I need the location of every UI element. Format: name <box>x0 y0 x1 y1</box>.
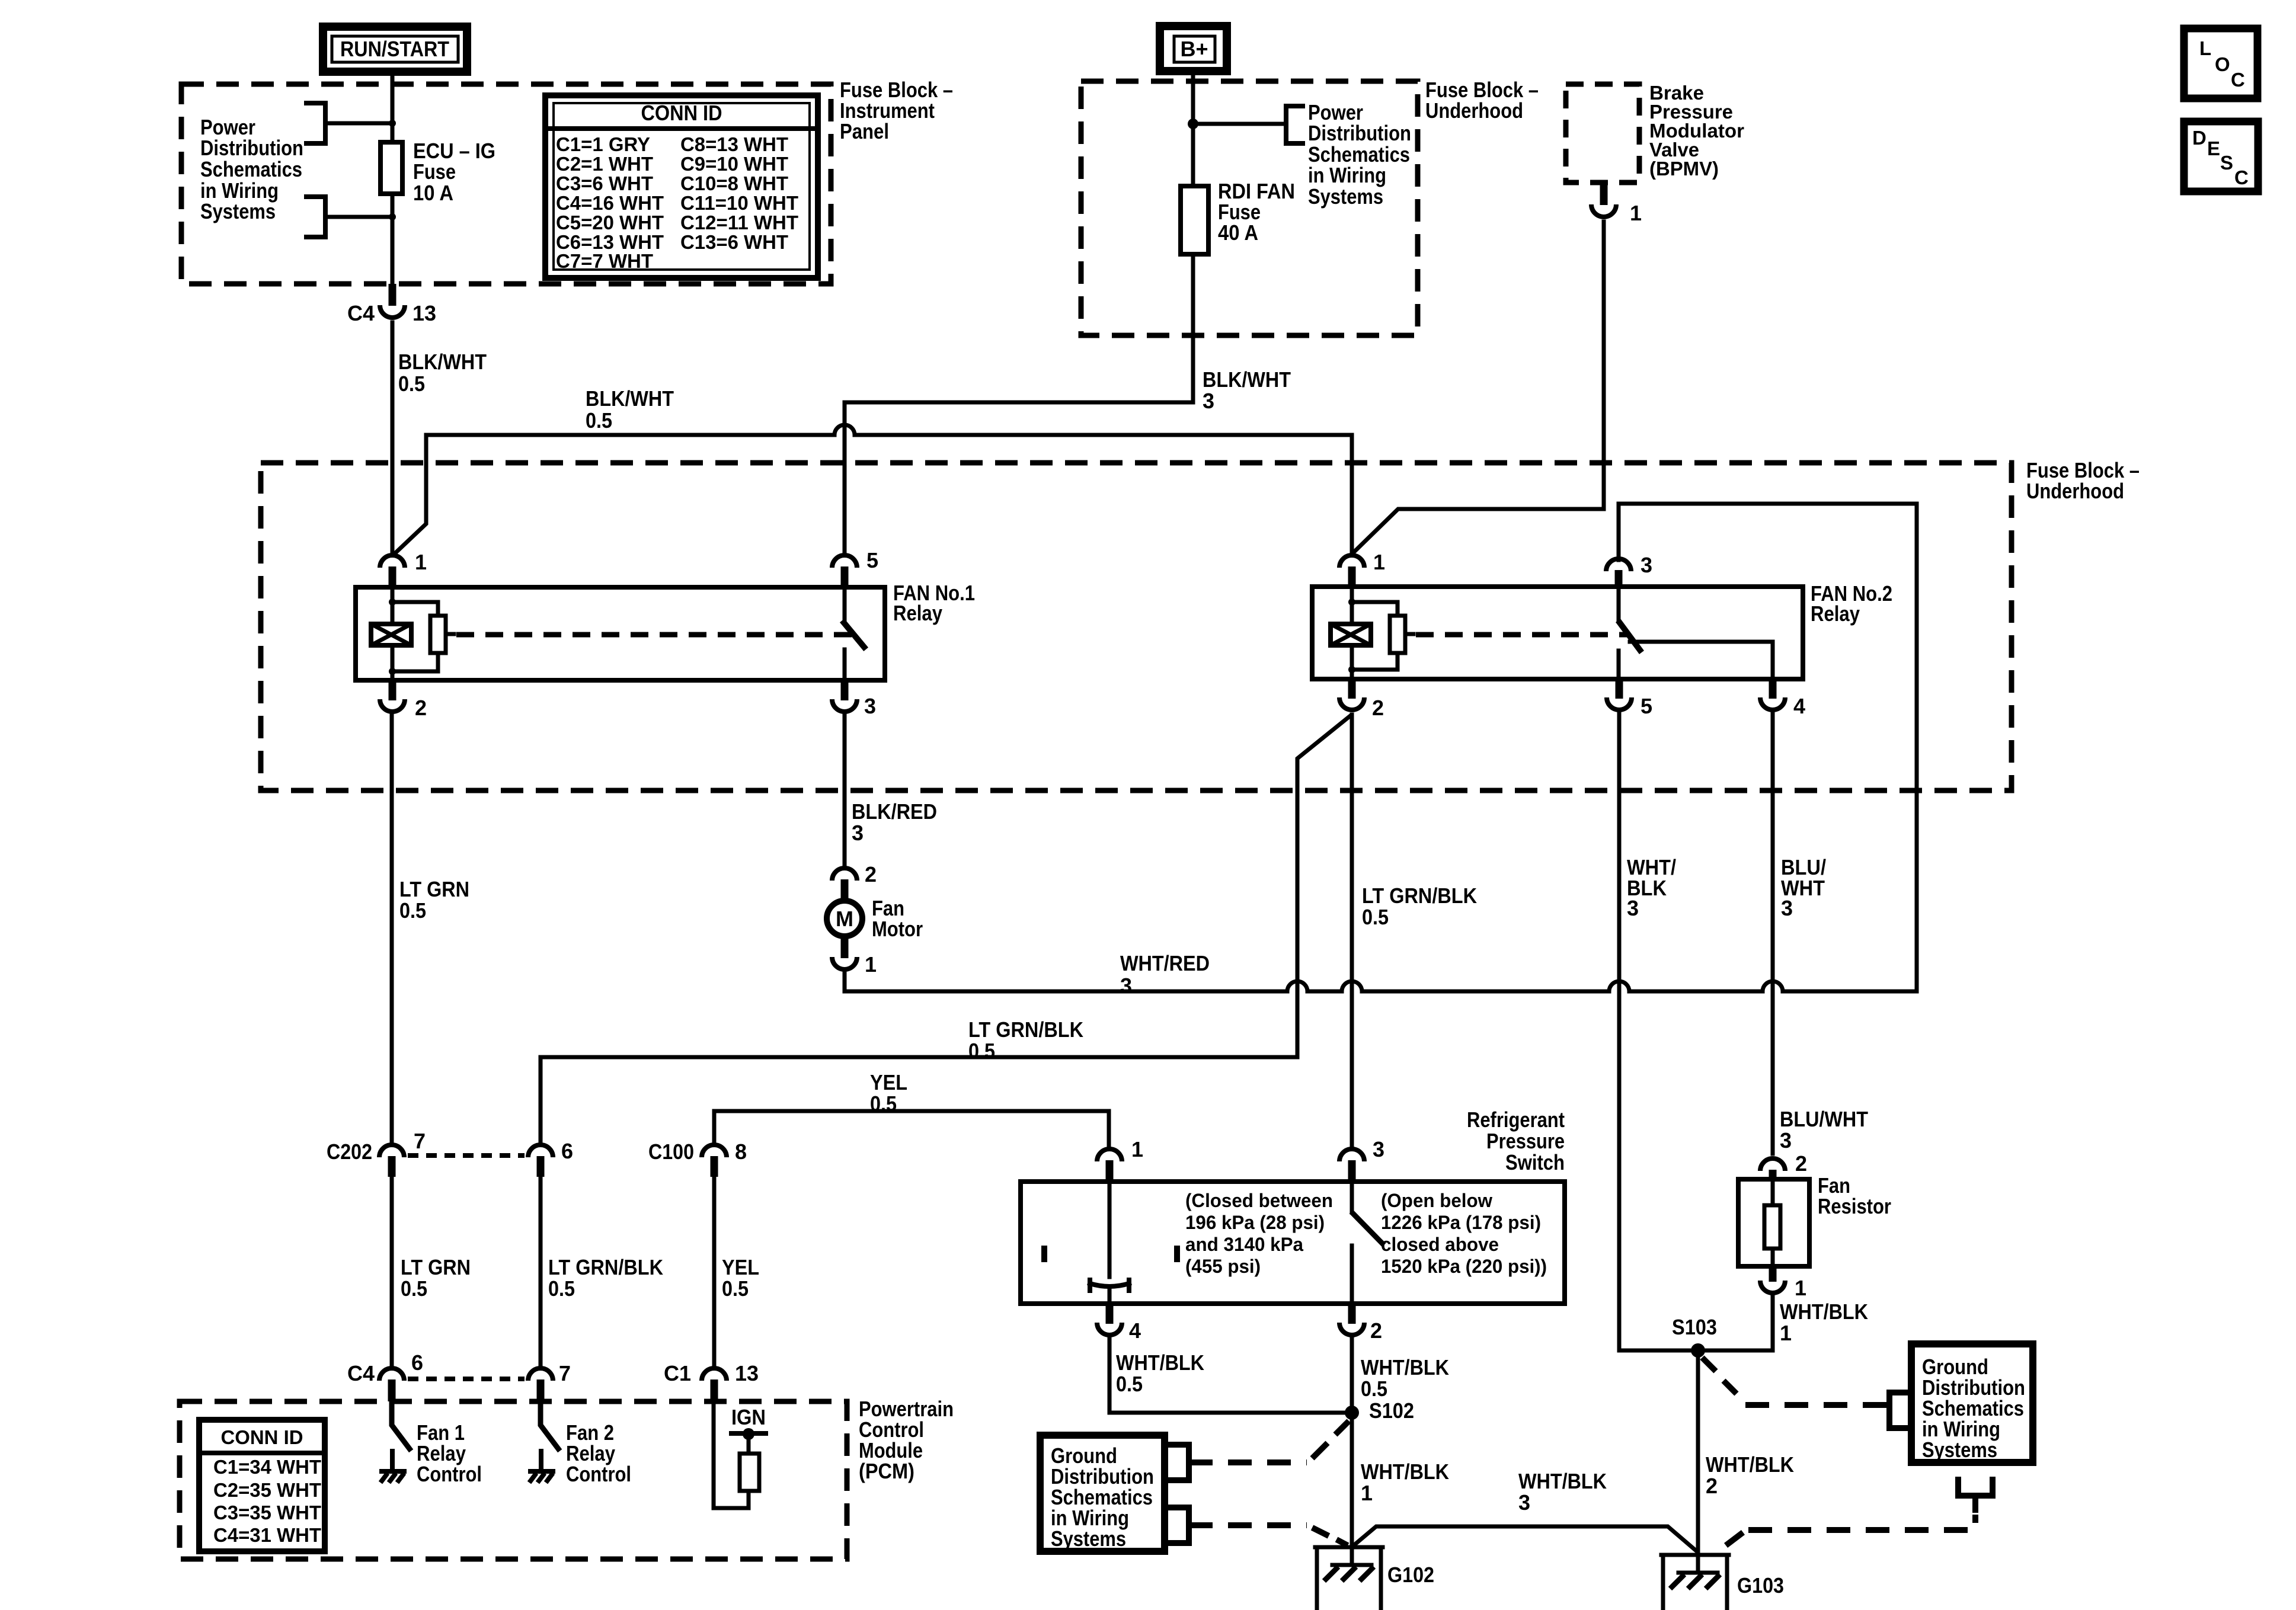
svg-text:13: 13 <box>735 1361 759 1385</box>
label (Closed between 196 kPa ...) <box>1185 1190 1333 1277</box>
svg-text:C5=20 WHT: C5=20 WHT <box>556 212 664 233</box>
svg-text:0.5: 0.5 <box>968 1039 995 1063</box>
svg-text:(Open below: (Open below <box>1381 1190 1492 1211</box>
label Fuse Block - Underhood (top) <box>1425 78 1539 123</box>
wire LT GRN/BLK 0.5 FAN2 pin2 to pressure switch pin 3 <box>1350 715 1354 1145</box>
label LT GRN 0.5 <box>399 877 469 923</box>
svg-text:Schematics: Schematics <box>200 157 302 181</box>
CONN ID table (PCM) <box>199 1420 325 1551</box>
svg-text:3: 3 <box>1641 553 1652 577</box>
svg-text:G103: G103 <box>1737 1573 1784 1598</box>
connector C1 pin 13 <box>664 1361 759 1401</box>
wire WHT/BLK 1 S102 to G102 <box>1350 1413 1354 1547</box>
svg-text:1: 1 <box>1131 1137 1143 1161</box>
ground G102 <box>1315 1547 1434 1609</box>
label Fan Resistor <box>1818 1173 1891 1218</box>
svg-text:LT GRN/BLK: LT GRN/BLK <box>548 1255 663 1279</box>
label WHT/BLK 1 (resistor) <box>1780 1299 1868 1345</box>
svg-text:WHT/RED: WHT/RED <box>1120 951 1210 975</box>
svg-text:BLU/WHT: BLU/WHT <box>1780 1107 1868 1131</box>
svg-text:7: 7 <box>414 1129 426 1153</box>
svg-text:2: 2 <box>865 862 877 886</box>
svg-text:3: 3 <box>1780 1128 1792 1153</box>
terminal RUN/START <box>323 27 467 72</box>
svg-text:in Wiring: in Wiring <box>1308 163 1386 187</box>
svg-text:LT GRN: LT GRN <box>401 1255 471 1279</box>
wire BLU/WHT 3 FAN2 pin4 to fan resistor pin 2 <box>1771 714 1775 1154</box>
svg-text:D: D <box>2192 127 2207 149</box>
svg-text:C4=16 WHT: C4=16 WHT <box>556 192 664 214</box>
svg-text:M: M <box>836 907 853 931</box>
dashed link bracket to S102 <box>1189 1421 1349 1462</box>
wire BLK/RED 3 FAN1 pin3 to fan motor pin 2 <box>843 715 847 866</box>
label FAN No.2 Relay <box>1811 581 1892 626</box>
svg-text:Control: Control <box>417 1462 482 1486</box>
bracket upper power distribution <box>306 103 325 143</box>
label (Open below 1226 kPa ...) <box>1381 1190 1547 1277</box>
label Fan 1 Relay Control <box>417 1420 482 1486</box>
svg-text:Pressure: Pressure <box>1486 1129 1565 1153</box>
label BLU/WHT 3 (lower) <box>1780 1107 1868 1153</box>
svg-text:RUN/START: RUN/START <box>340 37 449 61</box>
svg-text:G102: G102 <box>1387 1563 1434 1587</box>
LOC box <box>2184 28 2257 98</box>
svg-text:3: 3 <box>864 694 876 718</box>
svg-text:C8=13 WHT: C8=13 WHT <box>680 133 788 155</box>
label ECU - IG Fuse 10 A <box>413 139 495 205</box>
DESC box <box>2184 121 2258 191</box>
connector fan motor pin 2 <box>832 862 877 899</box>
svg-text:WHT/BLK: WHT/BLK <box>1116 1350 1204 1375</box>
fan resistor connector pin 2 <box>1760 1151 1807 1179</box>
connector C100 pin 8 <box>648 1140 747 1177</box>
ground Fan 2 relay control <box>529 1451 553 1483</box>
svg-text:C1: C1 <box>664 1361 691 1385</box>
label BLK/WHT 0.5 (left vertical) <box>398 350 487 396</box>
svg-text:BLK/WHT: BLK/WHT <box>586 386 674 411</box>
wire BPMV to FAN2 relay pin 1 <box>1353 222 1604 553</box>
connector fan motor pin 1 <box>832 939 877 977</box>
relay FAN1 coil circuit <box>389 587 438 681</box>
wire fuse to connector C4-13 <box>391 194 395 284</box>
svg-text:C: C <box>2234 167 2249 188</box>
label FAN No.1 Relay <box>893 581 975 625</box>
svg-text:YEL: YEL <box>722 1255 759 1279</box>
splice S102 <box>1345 1398 1414 1423</box>
label Fuse Block - Instrument Panel <box>840 78 953 143</box>
svg-text:0.5: 0.5 <box>401 1276 427 1301</box>
label Refrigerant Pressure Switch <box>1467 1108 1565 1174</box>
svg-text:5: 5 <box>1641 694 1652 718</box>
svg-text:C2=1 WHT: C2=1 WHT <box>556 153 653 175</box>
svg-text:WHT/BLK: WHT/BLK <box>1518 1469 1607 1493</box>
svg-text:6: 6 <box>411 1350 423 1375</box>
svg-text:C13=6 WHT: C13=6 WHT <box>680 231 788 253</box>
svg-text:C202: C202 <box>327 1140 372 1164</box>
svg-text:3: 3 <box>1781 896 1793 920</box>
svg-text:C4: C4 <box>347 301 375 325</box>
svg-text:C1=1 GRY: C1=1 GRY <box>556 133 650 155</box>
svg-text:Systems: Systems <box>1308 184 1383 209</box>
svg-text:2: 2 <box>1370 1318 1382 1343</box>
svg-text:C: C <box>2231 69 2245 91</box>
svg-text:4: 4 <box>1129 1318 1141 1343</box>
wire C1-13 to IGN pullup <box>714 1401 749 1508</box>
svg-text:LT GRN: LT GRN <box>399 877 469 901</box>
svg-text:1520 kPa (220 psi)): 1520 kPa (220 psi)) <box>1381 1256 1547 1277</box>
label BLK/WHT 3 <box>1203 367 1291 413</box>
wire WHT/BLK 0.5 pin 2 to S102 <box>1350 1339 1354 1413</box>
label WHT/RED 3 <box>1120 951 1210 998</box>
svg-text:10 A: 10 A <box>413 181 453 205</box>
wire junction to bracket (underhood) <box>1193 122 1286 126</box>
wire BLK/WHT 3 from RDI fuse to FAN1 relay pin 5 <box>845 254 1193 552</box>
connector pressure switch pin 1 <box>1097 1137 1143 1182</box>
connector pressure switch pin 3 <box>1339 1137 1384 1182</box>
fuse RDI FAN 40A <box>1181 186 1208 254</box>
svg-text:Switch: Switch <box>1505 1150 1565 1174</box>
dashed link S103 to bracket <box>1702 1358 1889 1405</box>
fan resistor box <box>1738 1179 1809 1266</box>
label WHT/BLK 0.5 (pin 4) <box>1116 1350 1204 1396</box>
refrigerant pressure switch box <box>1021 1182 1565 1304</box>
svg-text:S103: S103 <box>1672 1315 1717 1339</box>
harness dashes C4-6 to 7 <box>408 1377 525 1381</box>
connector BPMV pin 1 <box>1591 183 1642 225</box>
PCM dashed box <box>180 1401 847 1559</box>
svg-text:Underhood: Underhood <box>1425 98 1523 123</box>
svg-text:6: 6 <box>561 1139 573 1163</box>
svg-text:C11=10 WHT: C11=10 WHT <box>680 192 798 214</box>
connector C4 pin 6 (row 2) <box>347 1350 423 1401</box>
relay FAN2 internal dashed link <box>1405 632 1414 636</box>
label Power Distribution Schematics in Wiring Systems (left) <box>200 115 303 223</box>
svg-text:closed above: closed above <box>1381 1234 1499 1255</box>
svg-text:2: 2 <box>415 696 427 720</box>
svg-text:0.5: 0.5 <box>548 1276 575 1301</box>
connector pressure switch pin 2 <box>1339 1304 1382 1343</box>
label YEL 0.5 (lower) <box>722 1255 759 1301</box>
svg-text:Resistor: Resistor <box>1818 1194 1891 1218</box>
label Powertrain Control Module (PCM) <box>859 1397 954 1483</box>
relay FAN2 switch <box>1619 587 1773 679</box>
svg-text:LT GRN/BLK: LT GRN/BLK <box>968 1017 1083 1042</box>
svg-text:C9=10 WHT: C9=10 WHT <box>680 153 788 175</box>
svg-text:Refrigerant: Refrigerant <box>1467 1108 1565 1132</box>
relay FAN2 coil resistor <box>1390 616 1405 653</box>
pressure switch left contact (closed) <box>1090 1182 1129 1304</box>
svg-text:3: 3 <box>1203 389 1214 413</box>
switch Fan 1 relay control blade <box>392 1401 410 1449</box>
svg-text:WHT/BLK: WHT/BLK <box>1780 1299 1868 1324</box>
bracket upper (to S102) <box>1170 1445 1189 1480</box>
svg-text:CONN ID: CONN ID <box>641 101 722 125</box>
CONN ID table (instrument panel) <box>545 95 818 278</box>
relay FAN No.2 box <box>1312 587 1803 679</box>
svg-text:8: 8 <box>735 1140 747 1164</box>
svg-text:1226 kPa (178 psi): 1226 kPa (178 psi) <box>1381 1212 1541 1233</box>
svg-text:Fuse: Fuse <box>413 159 456 184</box>
svg-text:WHT/BLK: WHT/BLK <box>1706 1452 1794 1477</box>
wire WHT/RED 3 fan motor to FAN2 pin 3 terminal (hops at 2189,2281,2732,2991) <box>845 504 1917 991</box>
svg-text:4: 4 <box>1793 694 1805 718</box>
label BLU/WHT 3 (pin 4 wire) <box>1781 855 1826 920</box>
svg-text:1: 1 <box>1780 1321 1792 1345</box>
wire YEL 0.5 C100-8 to pressure switch pin 1 <box>714 1111 1109 1145</box>
svg-text:CONN ID: CONN ID <box>221 1426 303 1448</box>
svg-text:1: 1 <box>1361 1481 1373 1505</box>
svg-text:Relay: Relay <box>1811 601 1860 626</box>
connector pressure switch pin 4 <box>1097 1304 1141 1343</box>
splice S103 <box>1672 1315 1717 1358</box>
svg-text:C100: C100 <box>648 1140 694 1164</box>
bracket bottom (to G103) <box>1958 1480 1993 1496</box>
svg-text:3: 3 <box>1627 896 1639 920</box>
wire BLK/WHT 0.5 branch FAN1 pin1 to FAN2 pin1 (hop at x=1425) <box>394 425 1352 555</box>
label WHT/BLK 1 <box>1361 1459 1449 1505</box>
svg-text:1: 1 <box>865 952 877 977</box>
svg-text:LT GRN/BLK: LT GRN/BLK <box>1362 884 1477 908</box>
pressure switch tick mark middle <box>1174 1246 1180 1262</box>
relay FAN2 coil symbol <box>1331 624 1371 645</box>
svg-text:Systems: Systems <box>1922 1438 1997 1462</box>
fan motor M <box>827 901 862 936</box>
label RDI FAN Fuse 40 A <box>1218 179 1295 245</box>
svg-text:(BPMV): (BPMV) <box>1649 158 1719 180</box>
svg-text:1: 1 <box>1373 550 1385 574</box>
wire LT GRN/BLK 0.5 conn6 to pin 7 row2 <box>539 1177 543 1366</box>
svg-text:S: S <box>2220 152 2233 174</box>
svg-text:(455 psi): (455 psi) <box>1185 1256 1261 1277</box>
connector FAN2 pin 2 <box>1339 679 1384 720</box>
svg-text:BLK/WHT: BLK/WHT <box>398 350 487 374</box>
wire RUN/START to fuse ECU-IG <box>391 72 395 142</box>
svg-text:Distribution: Distribution <box>1308 121 1411 145</box>
svg-text:C12=11 WHT: C12=11 WHT <box>680 212 798 233</box>
label Fan 2 Relay Control <box>566 1420 631 1486</box>
junction lower on ECU-IG wire <box>389 213 396 220</box>
bracket left (to S103) <box>1889 1393 1907 1428</box>
svg-text:0.5: 0.5 <box>586 408 612 433</box>
wire WHT/BLK 1 fan resistor to S103 <box>1698 1297 1773 1350</box>
fan resistor element <box>1764 1179 1780 1266</box>
svg-text:E: E <box>2207 137 2220 159</box>
brake pressure modulator valve dashed box <box>1566 84 1639 183</box>
label LT GRN/BLK 0.5 (branch) <box>968 1017 1083 1063</box>
svg-text:C3=6 WHT: C3=6 WHT <box>556 172 653 194</box>
wire WHT/BLK 3 FAN2 pin5 to S103 <box>1619 714 1698 1350</box>
switch Fan 2 relay control blade <box>541 1401 558 1449</box>
dashed link bracket to G102 <box>1189 1525 1348 1545</box>
label Power Distribution Schematics in Wiring Systems (underhood) <box>1308 100 1411 209</box>
svg-text:196 kPa (28 psi): 196 kPa (28 psi) <box>1185 1212 1325 1233</box>
svg-text:BLK/RED: BLK/RED <box>852 799 937 824</box>
harness dashes C202-7 to 6 <box>408 1153 525 1158</box>
connector FAN1 pin 5 <box>832 548 878 587</box>
svg-text:C3=35 WHT: C3=35 WHT <box>213 1502 321 1523</box>
wire BLK/WHT 0.5 from C4-13 down to FAN1 relay pin 1 <box>391 322 395 552</box>
label WHT/BLK 3 (ground link) <box>1518 1469 1607 1515</box>
svg-text:0.5: 0.5 <box>1361 1377 1387 1401</box>
svg-text:7: 7 <box>559 1361 571 1385</box>
svg-text:0.5: 0.5 <box>399 898 426 923</box>
svg-text:Motor: Motor <box>872 917 923 941</box>
svg-text:BLK/WHT: BLK/WHT <box>1203 367 1291 392</box>
fuse block underhood dashed box (top) <box>1081 81 1418 335</box>
svg-text:L: L <box>2199 37 2211 59</box>
svg-text:Distribution: Distribution <box>200 136 303 160</box>
svg-text:C1=34 WHT: C1=34 WHT <box>213 1456 321 1478</box>
label WHT/BLK 3 (pin 5 wire) <box>1627 855 1676 920</box>
label YEL 0.5 <box>870 1070 907 1116</box>
svg-text:Systems: Systems <box>1051 1526 1126 1551</box>
relay FAN No.1 box <box>356 587 885 680</box>
wire WHT/BLK 3 G102 to G103 <box>1354 1526 1697 1551</box>
svg-text:Control: Control <box>566 1462 631 1486</box>
ground Fan 1 relay control <box>380 1451 404 1483</box>
wire B+ to RDI FAN fuse <box>1191 71 1195 186</box>
connector FAN2 pin 3 <box>1606 553 1652 587</box>
svg-text:Relay: Relay <box>893 601 942 625</box>
label Fuse Block - Underhood (big box) <box>2026 458 2140 503</box>
junction upper on ECU-IG wire <box>389 120 396 127</box>
wire WHT/BLK 2 S103 to G103 <box>1696 1350 1700 1555</box>
svg-text:0.5: 0.5 <box>722 1276 749 1301</box>
svg-text:and 3140 kPa: and 3140 kPa <box>1185 1234 1303 1255</box>
fuse block instrument panel dashed box <box>181 84 831 284</box>
relay FAN1 coil resistor <box>430 616 446 653</box>
dashed link bracket to G103 <box>1726 1496 1975 1545</box>
svg-text:(PCM): (PCM) <box>859 1459 914 1483</box>
connector FAN2 pin 4 <box>1760 679 1805 718</box>
connector row pin 6 (C202 side) <box>528 1139 573 1177</box>
svg-text:C2=35 WHT: C2=35 WHT <box>213 1479 321 1501</box>
svg-text:3: 3 <box>1518 1490 1530 1515</box>
svg-text:C7=7 WHT: C7=7 WHT <box>556 250 653 272</box>
junction on B+ wire <box>1188 119 1198 129</box>
bracket power distribution (underhood) <box>1286 106 1303 143</box>
svg-text:B+: B+ <box>1180 37 1208 61</box>
label Brake Pressure Modulator Valve (BPMV) <box>1649 82 1744 180</box>
connector FAN2 pin 5 <box>1607 679 1652 718</box>
svg-text:2: 2 <box>1706 1474 1718 1498</box>
svg-text:(Closed between: (Closed between <box>1185 1190 1333 1211</box>
ground distribution box (right) <box>1911 1344 2033 1462</box>
label LT GRN/BLK 0.5 (right) <box>1362 884 1477 929</box>
svg-text:Systems: Systems <box>200 199 276 223</box>
ground G103 <box>1661 1555 1784 1610</box>
connector FAN1 pin 3 <box>832 681 876 718</box>
connector row C202 pin 7 <box>327 1129 426 1177</box>
fuse block underhood big dashed box <box>261 463 2012 790</box>
pressure switch tick mark left <box>1041 1246 1047 1262</box>
wire LT GRN 0.5 FAN1 pin2 to C202-7 <box>390 716 394 1144</box>
svg-text:5: 5 <box>866 548 878 572</box>
svg-text:0.5: 0.5 <box>398 372 425 396</box>
pressure switch right contact (open) <box>1352 1182 1382 1304</box>
svg-text:C10=8 WHT: C10=8 WHT <box>680 172 788 194</box>
wire LT GRN 0.5 C202-7 to C4-6 <box>390 1177 394 1366</box>
ground distribution box (left) <box>1040 1435 1165 1551</box>
terminal B+ <box>1160 26 1227 71</box>
svg-text:0.5: 0.5 <box>870 1092 897 1116</box>
svg-text:Panel: Panel <box>840 119 889 143</box>
label BLK/RED 3 <box>852 799 937 845</box>
label LT GRN/BLK 0.5 (lower) <box>548 1255 663 1301</box>
svg-text:C4: C4 <box>347 1361 375 1385</box>
svg-text:3: 3 <box>852 821 864 845</box>
wire YEL 0.5 C100-8 to C1-13 <box>712 1177 717 1366</box>
svg-text:1: 1 <box>415 550 427 574</box>
svg-text:0.5: 0.5 <box>1362 905 1389 929</box>
bracket lower (to G102) <box>1170 1507 1189 1543</box>
connector C4 pin 13 <box>347 284 436 325</box>
svg-text:WHT/BLK: WHT/BLK <box>1361 1459 1449 1484</box>
relay FAN1 switch <box>844 587 864 680</box>
label WHT/BLK 0.5 (pin 2) <box>1361 1355 1449 1401</box>
connector FAN1 pin 2 <box>380 681 427 720</box>
connector row2 pin 7 <box>528 1361 571 1401</box>
IGN rail symbol <box>731 1428 766 1440</box>
svg-text:2: 2 <box>1795 1151 1807 1176</box>
wire junction to lower bracket <box>325 215 392 219</box>
wire junction to upper bracket <box>325 121 392 126</box>
label WHT/BLK 2 <box>1706 1452 1794 1498</box>
connector FAN2 pin 1 <box>1339 550 1385 587</box>
IGN pullup resistor <box>740 1454 759 1491</box>
connector FAN1 pin 1 <box>380 550 427 587</box>
svg-text:WHT/BLK: WHT/BLK <box>1361 1355 1449 1379</box>
fan resistor connector pin 1 <box>1760 1266 1806 1300</box>
svg-text:0.5: 0.5 <box>1116 1372 1143 1396</box>
bracket lower power distribution <box>306 197 325 237</box>
fuse ECU-IG 10A <box>380 142 402 194</box>
svg-text:13: 13 <box>412 301 436 325</box>
wire WHT/BLK 0.5 pin 4 to S102 <box>1109 1339 1352 1413</box>
svg-text:Underhood: Underhood <box>2026 479 2124 503</box>
svg-text:1: 1 <box>1630 201 1642 225</box>
wire LT GRN/BLK 0.5 FAN2 pin2 branch to connector 6 <box>541 716 1350 1144</box>
svg-text:O: O <box>2215 53 2230 75</box>
relay FAN1 internal dashed link <box>446 632 454 636</box>
relay FAN1 coil symbol <box>371 624 411 645</box>
svg-text:1: 1 <box>1795 1276 1806 1300</box>
label Fan Motor <box>872 896 923 941</box>
label LT GRN 0.5 (lower) <box>401 1255 471 1301</box>
svg-text:S102: S102 <box>1369 1398 1414 1423</box>
svg-text:YEL: YEL <box>870 1070 907 1094</box>
relay FAN2 coil circuit <box>1348 587 1398 679</box>
svg-text:3: 3 <box>1373 1137 1384 1161</box>
svg-text:40 A: 40 A <box>1218 220 1258 245</box>
svg-text:C4=31 WHT: C4=31 WHT <box>213 1524 321 1546</box>
svg-text:3: 3 <box>1120 974 1132 998</box>
svg-text:2: 2 <box>1372 696 1384 720</box>
svg-text:IGN: IGN <box>731 1405 766 1429</box>
label BLK/WHT 0.5 (branch) <box>586 386 674 433</box>
